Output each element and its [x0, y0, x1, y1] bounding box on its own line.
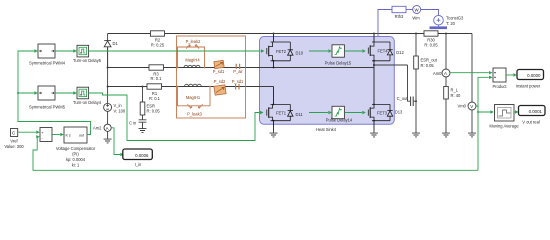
- diode D13: [387, 104, 392, 120]
- svg-text:Voltage Compensator: Voltage Compensator: [56, 146, 96, 151]
- svg-text:MagIH1: MagIH1: [186, 95, 201, 100]
- wire FET4 source down to FET3 drain: [373, 61, 375, 105]
- delay block Pulse Delay15: [325, 45, 352, 66]
- thermal resistor Rth3: [392, 6, 406, 19]
- ground under FET1: [270, 131, 278, 137]
- svg-text:V out real: V out real: [522, 120, 540, 125]
- svg-text:T: 20: T: 20: [446, 21, 456, 26]
- diode D1: [104, 34, 111, 68]
- svg-text:Am0: Am0: [433, 71, 442, 76]
- ground under ESR_out: [412, 131, 420, 137]
- P_leak3 glyph b: [198, 104, 203, 108]
- svg-text:P_sd1: P_sd1: [232, 79, 244, 84]
- svg-text:D10: D10: [296, 51, 304, 56]
- thermal ground bar: [438, 25, 440, 26]
- thermal wire heat sink to Rth3: [378, 10, 392, 37]
- load branch Am0 and R_L: [445, 34, 447, 131]
- gap permeance P_sd1 (lower bars): [236, 84, 239, 90]
- wire Product to display: [506, 74, 513, 76]
- resistor R3 on upper wire: [149, 65, 164, 81]
- magnetizing inductance MagIH4: [184, 65, 200, 67]
- svg-text:Instant power: Instant power: [516, 84, 541, 89]
- ground under C in: [139, 126, 147, 132]
- transistor FET3 cell: [368, 104, 390, 120]
- ground under R_L: [442, 131, 450, 137]
- svg-text:Value: 300: Value: 300: [4, 144, 24, 149]
- display Instant power: [516, 70, 544, 89]
- wire gate row2 FET1 to Pulse Delay14: [309, 112, 328, 114]
- wire V_in to Am2: [107, 111, 109, 124]
- wire gate row2 Delay4 run to FET1 gate: [89, 93, 260, 141]
- svg-text:P_leak2: P_leak2: [186, 39, 202, 44]
- wire C_out tap vertical and link: [408, 65, 417, 101]
- svg-text:P_sd1: P_sd1: [213, 69, 225, 74]
- svg-text:P_leak3: P_leak3: [187, 111, 203, 116]
- svg-text:P_sd2: P_sd2: [214, 79, 226, 84]
- svg-text:out: out: [79, 134, 84, 138]
- constant temperature TconstG3: [434, 15, 444, 25]
- block Symmetrical PWM5: [29, 86, 66, 110]
- wire Am2 to ground: [107, 131, 109, 136]
- svg-text:R: 0.05: R: 0.05: [421, 63, 435, 68]
- summing junction: [40, 128, 52, 142]
- wire compensator output feedback loop to PWM inputs: [18, 51, 91, 135]
- svg-text:(PI): (PI): [72, 152, 79, 157]
- magnetizing inductance MagIH1: [185, 84, 202, 86]
- wire gate row1 FET2 to Pulse Delay15: [309, 50, 328, 52]
- block Voltage Compensator (PI): [56, 127, 96, 168]
- diode D12: [387, 42, 392, 61]
- transistor FET1 cell: [267, 104, 291, 120]
- diode D11: [288, 104, 293, 120]
- svg-text:FET4: FET4: [378, 49, 389, 54]
- wire FET2 drain to rail: [273, 34, 275, 43]
- svg-text:A: A: [444, 71, 447, 76]
- wire Am0 measurement to Product: [450, 72, 489, 74]
- svg-text:C in: C in: [129, 121, 137, 126]
- top DC rail wire: [108, 33, 472, 35]
- P_leak3 glyph a: [188, 104, 193, 108]
- svg-text:ki: 1: ki: 1: [72, 163, 80, 168]
- svg-text:R: 0.1: R: 0.1: [149, 96, 161, 101]
- svg-text:Am2: Am2: [93, 126, 102, 131]
- svg-text:C_out: C_out: [397, 96, 409, 101]
- voltage source V_in: [104, 103, 112, 111]
- svg-text:A: A: [106, 126, 109, 131]
- resistor ESR: [140, 102, 160, 115]
- wire FET3 source to ground: [373, 121, 375, 131]
- wire transformer lower y86.5: [108, 86, 274, 88]
- svg-text:TconstG3: TconstG3: [446, 16, 464, 21]
- svg-text:R: 0.1: R: 0.1: [151, 76, 163, 81]
- block Moving Average: [489, 105, 519, 129]
- svg-text:Pulse Delay14: Pulse Delay14: [326, 117, 353, 122]
- resistor R30 on rail: [424, 31, 438, 48]
- node dots P_leak2: [177, 67, 179, 69]
- ground under Am2: [104, 137, 112, 143]
- display V out real: [519, 106, 546, 125]
- resistor ESR_out branch: [415, 34, 417, 131]
- svg-text:P_air: P_air: [233, 69, 243, 74]
- node junction ESR tap: [142, 86, 144, 88]
- wire Moving Average to display: [514, 111, 515, 113]
- svg-text:Pulse Delay15: Pulse Delay15: [325, 60, 352, 65]
- magnetic model box (transformer permeance model): [177, 36, 246, 118]
- wire gate row1 Pulse Delay15 to FET4: [344, 50, 362, 52]
- svg-text:0.0000: 0.0000: [527, 73, 541, 78]
- permeance P_leak2 branch: [178, 47, 205, 68]
- wire Vref to summing: [18, 131, 37, 133]
- block Product: [492, 68, 507, 89]
- svg-text:Rth3: Rth3: [395, 14, 404, 19]
- svg-text:Product: Product: [492, 84, 507, 89]
- svg-text:Turn-on Delay4: Turn-on Delay4: [73, 100, 102, 105]
- wire gate row2 Pulse Delay14 to FET3: [344, 112, 362, 114]
- wire branch to PWM5 input: [17, 92, 19, 94]
- delay block Pulse Delay14: [326, 106, 353, 122]
- svg-text:Symmetrical PWM4: Symmetrical PWM4: [29, 61, 66, 66]
- wire FET1 drain to transformer lower: [273, 87, 275, 105]
- wire FET1 source to ground: [273, 121, 275, 131]
- voltmeter Vm0 branch: [471, 34, 473, 131]
- svg-text:D12: D12: [396, 50, 404, 55]
- transistor FET2 cell: [267, 42, 291, 61]
- wire summing to compensator: [52, 134, 60, 136]
- svg-text:V: 100: V: 100: [114, 108, 126, 113]
- svg-text:Vref: Vref: [10, 139, 18, 144]
- svg-text:Heat Sink4: Heat Sink4: [316, 127, 337, 132]
- capacitor C_out: [411, 97, 414, 107]
- svg-text:R: 40: R: 40: [451, 93, 462, 98]
- wire ESR branch vertical: [142, 87, 144, 120]
- svg-text:0.0001: 0.0001: [529, 109, 543, 114]
- wire feedback bottom run to summing: [33, 137, 478, 171]
- resistor R2 on rail: [151, 31, 165, 48]
- wire gate row2 PWM5 to Turn-on Delay4: [55, 92, 74, 94]
- wire FET4 drain to rail: [373, 34, 375, 43]
- svg-text:FET1: FET1: [276, 110, 287, 115]
- svg-text:D1: D1: [113, 41, 119, 46]
- ammeter Am2: [104, 124, 111, 131]
- svg-text:D11: D11: [296, 112, 304, 117]
- svg-text:R: 0.05: R: 0.05: [424, 43, 438, 48]
- wire transformer upper y67.5: [108, 67, 374, 69]
- thermal wire Wm to Tconst: [421, 10, 439, 16]
- node junction dots on input vertical: [107, 67, 109, 69]
- node dots P_leak3: [177, 86, 179, 88]
- wire bridge output to C_out: [374, 64, 408, 66]
- svg-text:I_in: I_in: [135, 162, 142, 167]
- transistor FET4 cell: [368, 42, 390, 61]
- wire Vm0 measurement net: [476, 77, 489, 106]
- wire Vm0 to Moving Average: [477, 111, 479, 113]
- svg-text:D13: D13: [395, 110, 403, 115]
- heat flow meter Wm: [406, 9, 413, 11]
- wire Am2 measurement to display I_in: [111, 128, 120, 155]
- svg-text:R: 0.25: R: 0.25: [151, 43, 165, 48]
- resistor R_L: [444, 87, 461, 100]
- ground under FET3: [370, 131, 378, 137]
- display I_in: [123, 149, 153, 167]
- resistor R1 on lower wire: [147, 84, 162, 101]
- svg-text:0.0006: 0.0006: [135, 153, 149, 158]
- wire FET2 source to transformer upper: [273, 61, 275, 68]
- svg-text:V: V: [470, 104, 473, 109]
- svg-text:V_in: V_in: [114, 103, 123, 108]
- ammeter Am0: [442, 69, 450, 77]
- wire gate row1 PWM4 to Turn-on Delay5: [55, 50, 74, 52]
- P_leak2 glyph b: [195, 45, 199, 49]
- P_leak2 glyph a: [187, 45, 191, 49]
- saturable permeance P_sd2 (lower): [214, 79, 226, 95]
- permeance P_leak3 branch: [178, 87, 211, 106]
- air gap permeance P_air (upper): [236, 64, 239, 69]
- svg-text:Wm: Wm: [412, 16, 420, 21]
- svg-text:Symmetrical PWM5: Symmetrical PWM5: [29, 105, 66, 110]
- block Vref constant C: [4, 129, 24, 150]
- svg-text:K s: K s: [66, 134, 71, 138]
- svg-text:Moving Average: Moving Average: [489, 124, 519, 129]
- svg-text:R: 0.05: R: 0.05: [147, 109, 161, 114]
- svg-text:MagIH4: MagIH4: [185, 57, 200, 62]
- wire input vertical to V_in: [107, 47, 109, 104]
- ground under Vm0: [468, 131, 476, 137]
- svg-text:R_L: R_L: [451, 88, 459, 93]
- svg-text:FET2: FET2: [276, 49, 287, 54]
- block Turn-on Delay4: [73, 87, 102, 105]
- svg-text:Turn-on Delay5: Turn-on Delay5: [73, 58, 102, 63]
- block Turn-on Delay5: [73, 45, 102, 63]
- svg-text:Vm0: Vm0: [458, 104, 467, 109]
- svg-text:FET3: FET3: [377, 110, 388, 115]
- heat sink subsystem box Heat Sink4: [260, 37, 395, 132]
- block Symmetrical PWM4: [29, 44, 66, 66]
- svg-text:ESR_out: ESR_out: [421, 58, 438, 63]
- svg-text:kp: 0.0004: kp: 0.0004: [66, 157, 86, 162]
- saturable permeance P_sd1 (upper): [213, 60, 225, 73]
- diode D10: [288, 42, 293, 61]
- node bridge output tap: [373, 64, 375, 66]
- wire gate row1 Delay5 to FET2 gate: [89, 50, 261, 52]
- capacitor C in: [139, 120, 147, 126]
